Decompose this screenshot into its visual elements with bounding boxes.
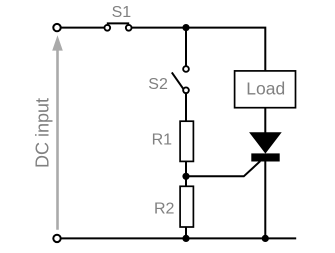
switch S2 <box>172 66 189 93</box>
node bottom right junction <box>262 235 269 242</box>
thyristor SCR cathode bar <box>251 153 279 161</box>
thyristor SCR anode triangle <box>250 133 281 153</box>
resistor R1 <box>180 121 193 161</box>
wire R2 to bottom rail <box>185 227 187 238</box>
DC input arrow shaft <box>56 49 59 230</box>
terminal top-left <box>53 24 60 31</box>
load box <box>235 71 296 108</box>
svg-text:R2: R2 <box>154 201 175 218</box>
wire gate from node to thyristor <box>186 161 260 176</box>
wire top rail left segment <box>57 27 104 29</box>
svg-text:R1: R1 <box>152 132 173 149</box>
wire Load to thyristor <box>264 108 266 134</box>
svg-text:S2: S2 <box>148 76 168 93</box>
DC input arrow head <box>52 35 63 50</box>
terminal bottom-left <box>53 235 60 242</box>
resistor R2 <box>180 186 193 227</box>
wire thyristor to bottom rail <box>264 162 266 239</box>
wire top rail right segment with corner down to Load <box>132 28 265 72</box>
wire R1 to node <box>185 161 187 186</box>
wire S2 to R1 <box>185 93 187 121</box>
node top junction <box>182 24 189 31</box>
svg-text:Load: Load <box>246 78 285 98</box>
svg-text:S1: S1 <box>112 4 132 21</box>
node gate junction <box>182 173 189 180</box>
node bottom middle junction <box>182 235 189 242</box>
wire bottom rail <box>57 237 296 239</box>
switch S1 <box>104 23 131 30</box>
wire junction to S2 <box>185 28 187 66</box>
svg-text:DC input: DC input <box>33 98 53 168</box>
